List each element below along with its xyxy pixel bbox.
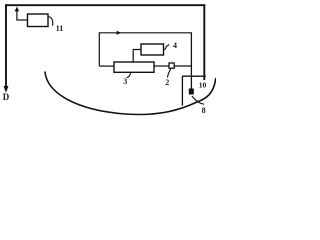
wire probe vertical from top wire down to sensor 8 [190,33,192,89]
svg-text:8: 8 [202,106,206,115]
switch box 2 [169,63,174,68]
wire left border line to arrow D [5,4,7,87]
sensor 8 filled square [189,89,194,95]
wire box 3 right to switch 2 [154,65,169,67]
leader line for 4 [164,45,170,50]
wire top border of enclosure [5,4,205,6]
wire right border of enclosure [203,4,205,80]
box 11 [28,14,49,27]
wire up-arrow from box 11 to top border [16,10,18,21]
wire horizontal into box 11 [16,19,27,21]
leader line for 11 [48,17,53,26]
arrowhead up [15,7,20,12]
svg-text:11: 11 [56,24,64,33]
box 4 [141,44,164,55]
svg-text:10: 10 [199,81,207,90]
wire shelf of housing [182,75,205,77]
leader line for 2 [167,68,171,77]
svg-text:3: 3 [123,77,127,86]
wire top horizontal of loop with arrow [99,32,192,34]
wire box 3 top to box 4 left [133,50,141,63]
arrowhead of D [4,86,9,93]
svg-text:4: 4 [173,41,177,50]
leader line for 3 [127,73,131,78]
svg-text:D: D [3,92,10,102]
wire left vertical of feedback loop [98,33,100,66]
wire housing left wall [181,76,183,106]
arrowhead right on top wire [117,31,121,35]
wire into box 3 left [99,65,114,67]
wire switch 2 to probe line [174,65,191,67]
bowl arc (curved vessel) [45,72,216,115]
svg-text:2: 2 [165,78,169,87]
leader line for 8 [192,96,204,104]
box 3 [114,62,154,72]
